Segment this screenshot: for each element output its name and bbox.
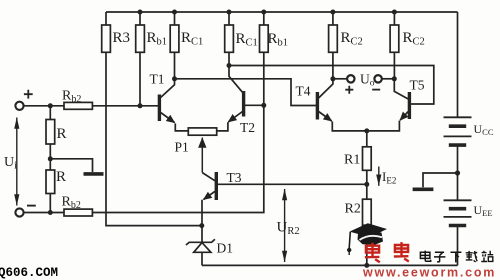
- label + (input): [24, 90, 33, 99]
- transistor T2: [228, 66, 263, 122]
- wire Uo- to T5 collector: [382, 78, 395, 80]
- wire T2 emitter to P1: [217, 122, 228, 131]
- watermark text dian (CJK): [420, 251, 430, 262]
- label - (Uo): [372, 89, 380, 91]
- svg-text:www.eeworm.com: www.eeworm.com: [362, 266, 496, 280]
- watermark graduation cap: [347, 223, 387, 255]
- wire Ucc to UEE: [457, 145, 459, 200]
- input terminal -: [15, 208, 23, 216]
- svg-text:T3: T3: [227, 170, 242, 185]
- wire RC2 to T5 collector: [393, 52, 395, 79]
- svg-text:T2: T2: [240, 120, 255, 135]
- ground bar (input divider): [84, 172, 104, 176]
- wire - input to Rb2: [24, 212, 64, 214]
- junction dot T1 collector/RC1: [172, 76, 177, 81]
- resistor RC2 (right): [390, 12, 399, 52]
- junction dot R2/bottom rail: [364, 263, 369, 268]
- junction dot rail/RC2 left: [330, 10, 335, 15]
- wire T1 collector to T4 base: [175, 79, 317, 106]
- svg-text:R: R: [57, 126, 67, 142]
- transistor T3: [202, 172, 216, 200]
- wire T2 collector to T5 base: [229, 66, 434, 105]
- ground bar (supply midpoint): [413, 188, 434, 192]
- junction dot - input/R divider: [48, 210, 53, 215]
- junction dot T3 base/R1/R2: [364, 182, 369, 187]
- junction dot rail/RC2 right: [392, 10, 397, 15]
- wire RC2 to T4 collector: [332, 52, 334, 79]
- P1 wiper arrow: [201, 138, 203, 173]
- junction dot rail/RC1 left: [172, 10, 177, 15]
- resistor R (lower): [46, 170, 55, 213]
- wire midpoint to signal ground: [50, 159, 92, 172]
- junction dot rail/Rb1 left: [138, 10, 143, 15]
- potentiometer P1: [188, 128, 216, 135]
- junction dot Rb1/T2 base: [261, 103, 266, 108]
- resistor R2: [363, 199, 372, 265]
- junction dot battery midpoint: [455, 170, 460, 175]
- watermark text zai (CJK): [466, 251, 478, 262]
- junction dot T4 collector/RC2: [330, 76, 335, 81]
- zener diode D1: [186, 226, 215, 266]
- wire Rb1 to T1 base: [139, 52, 141, 105]
- svg-text:R1: R1: [344, 153, 360, 168]
- current arrow IE2: [378, 167, 380, 186]
- resistor Rb2 (top): [64, 102, 92, 109]
- junction dot R/R midpoint: [48, 156, 53, 161]
- wire Rb2 to T2 base: [92, 105, 263, 212]
- resistor RC1 (left): [170, 12, 179, 52]
- resistor R1: [363, 131, 372, 199]
- wire RC1 to T2 collector: [228, 52, 230, 65]
- battery UEE: [444, 200, 472, 225]
- junction dot rail/RC1 right: [227, 10, 232, 15]
- resistor Rb1 (right): [260, 12, 269, 52]
- junction dot + input/R divider: [48, 103, 53, 108]
- junction dot rail/Rb1 right: [261, 10, 266, 15]
- bottom rail -UEE: [202, 264, 458, 266]
- junction dot Rb1/T1 base: [138, 103, 143, 108]
- svg-text:D1: D1: [217, 241, 234, 256]
- svg-text:T5: T5: [410, 78, 425, 93]
- battery Ucc: [444, 117, 472, 145]
- junction dot R3/T3 emitter/D1: [199, 223, 204, 228]
- top rail +Ucc: [106, 11, 458, 13]
- resistor Rb2 (bottom): [64, 209, 92, 216]
- resistor R3: [102, 12, 111, 52]
- label - (input): [27, 205, 36, 207]
- wire Rb1 to T2 base: [263, 52, 265, 105]
- resistor RC1 (right): [225, 12, 234, 52]
- wire battery midpoint to ground: [423, 173, 458, 187]
- junction dot T5 collector/RC2: [392, 76, 397, 81]
- resistor Rb1 (left): [136, 12, 145, 52]
- watermark text xia (CJK): [451, 252, 462, 262]
- wire Rb2 to T1 base: [92, 105, 158, 107]
- wire UEE to bottom rail: [457, 226, 459, 266]
- label + (Uo): [345, 86, 353, 94]
- voltage arrow UR2: [284, 189, 286, 262]
- svg-text:T1: T1: [150, 72, 165, 87]
- svg-text:T4: T4: [296, 84, 311, 99]
- svg-text:R3: R3: [113, 30, 131, 46]
- transistor T1: [159, 79, 174, 123]
- wire + input to Rb2: [24, 105, 64, 107]
- wire T4 collector to Uo+ terminal: [333, 78, 347, 80]
- wire T5 emitter to tail node: [367, 121, 400, 131]
- output terminal Uo+: [347, 75, 354, 82]
- wire top rail to Ucc battery: [457, 12, 459, 117]
- svg-text:Q606.COM: Q606.COM: [0, 266, 58, 280]
- wire T3 base to R1/R2 node: [218, 183, 367, 185]
- watermark text chong (1st): [365, 243, 380, 262]
- transistor T4: [317, 79, 333, 121]
- wire T3 emitter to zener node: [201, 200, 203, 226]
- watermark text zhan (CJK): [481, 251, 493, 262]
- wire R3 to zener node: [106, 52, 202, 225]
- junction dot T2 collector/RC1: [227, 63, 232, 68]
- voltage arrow Ui: [16, 118, 18, 206]
- wire T1 emitter to P1: [175, 123, 188, 130]
- input terminal +: [15, 102, 23, 110]
- watermark text chong (2nd): [394, 242, 409, 261]
- svg-text:P1: P1: [175, 140, 189, 155]
- output terminal Uo-: [374, 75, 381, 82]
- junction dot tail node: [364, 128, 369, 133]
- transistor T5: [394, 79, 409, 120]
- wire T4 emitter to tail node: [332, 122, 367, 131]
- resistor R (upper): [46, 106, 55, 170]
- svg-text:R: R: [56, 169, 66, 185]
- watermark text zi (CJK): [434, 252, 445, 262]
- resistor RC2 (left): [329, 12, 338, 52]
- wire RC1 to T1 collector: [174, 52, 176, 79]
- svg-text:R2: R2: [345, 202, 361, 217]
